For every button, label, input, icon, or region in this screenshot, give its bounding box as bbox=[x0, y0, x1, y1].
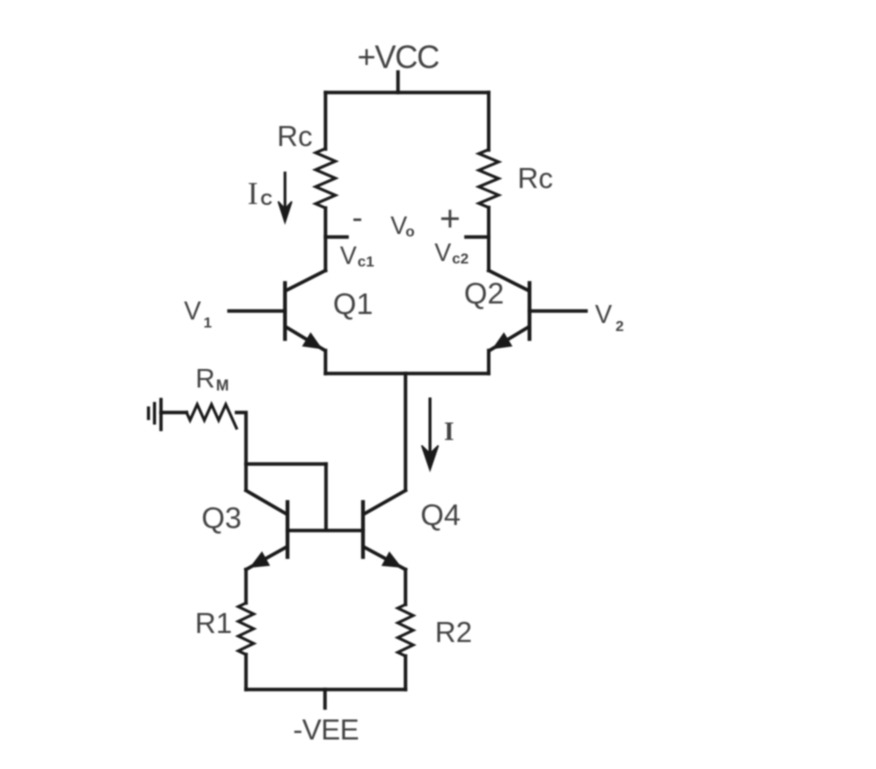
svg-text:-VEE: -VEE bbox=[293, 715, 359, 747]
current arrow I bbox=[429, 399, 432, 456]
svg-text:I: I bbox=[248, 175, 259, 211]
wire right collector branch bbox=[487, 93, 491, 151]
node Vc1 tick bbox=[326, 235, 348, 239]
svg-text:C: C bbox=[261, 191, 273, 209]
svg-text:R: R bbox=[196, 364, 216, 394]
svg-text:V: V bbox=[595, 301, 612, 329]
wire left collector branch bbox=[324, 93, 328, 150]
transistor Q3 bbox=[246, 491, 288, 570]
wire Q4 emitter drop bbox=[404, 570, 408, 605]
wire Q3 emitter drop bbox=[244, 570, 248, 604]
svg-text:V: V bbox=[184, 298, 201, 326]
resistor R2 bbox=[398, 605, 413, 657]
wire mirror tie drop to base bus bbox=[324, 464, 328, 529]
wire R1 to rail bbox=[244, 655, 248, 690]
svg-text:2: 2 bbox=[616, 318, 624, 335]
wire Q1 emitter drop bbox=[324, 351, 328, 374]
svg-text:I: I bbox=[444, 417, 454, 446]
current arrow IC bbox=[284, 173, 287, 208]
wire V1 base lead bbox=[229, 309, 285, 313]
svg-text:+VCC: +VCC bbox=[357, 39, 439, 75]
transistor Q1 bbox=[285, 271, 326, 351]
wire top rail bbox=[326, 91, 489, 95]
svg-text:V: V bbox=[435, 239, 452, 267]
svg-text:Q4: Q4 bbox=[421, 499, 461, 532]
transistor Q2 bbox=[489, 271, 530, 351]
wire V2 base lead bbox=[530, 309, 587, 313]
ground bbox=[149, 400, 162, 430]
wire RM to node bbox=[237, 413, 247, 491]
wire VEE stub bbox=[323, 690, 327, 709]
resistor RC left bbox=[316, 149, 336, 209]
svg-text:+: + bbox=[440, 198, 461, 239]
svg-text:R1: R1 bbox=[195, 608, 232, 640]
node Vc2 tick bbox=[466, 235, 489, 239]
svg-text:Rc: Rc bbox=[277, 121, 312, 153]
svg-text:M: M bbox=[216, 378, 229, 395]
svg-text:c2: c2 bbox=[452, 251, 469, 268]
svg-text:c1: c1 bbox=[358, 254, 375, 271]
wire emitter rail bbox=[326, 372, 489, 376]
wire left collector to Q1 bbox=[324, 208, 328, 271]
svg-text:R2: R2 bbox=[435, 617, 472, 649]
wire tail current drop bbox=[404, 374, 408, 491]
wire mirror tie horizontal bbox=[246, 462, 326, 466]
svg-text:Q2: Q2 bbox=[464, 278, 504, 311]
svg-text:o: o bbox=[406, 224, 415, 241]
svg-text:Q1: Q1 bbox=[333, 288, 373, 321]
resistor RM bbox=[187, 404, 237, 428]
wire VCC stub bbox=[396, 72, 400, 93]
resistor RC right bbox=[479, 150, 499, 208]
resistor R1 bbox=[238, 603, 253, 655]
svg-text:Rc: Rc bbox=[518, 163, 553, 195]
wire right collector to Q2 bbox=[487, 208, 491, 271]
svg-text:V: V bbox=[340, 242, 357, 270]
wire Q2 emitter drop bbox=[487, 351, 491, 374]
svg-text:Q3: Q3 bbox=[202, 502, 242, 535]
wire R2 to rail bbox=[404, 656, 408, 690]
svg-text:1: 1 bbox=[204, 315, 212, 332]
wire base bus Q3-Q4 bbox=[288, 529, 364, 533]
wire bottom rail bbox=[246, 688, 406, 692]
svg-text:-: - bbox=[352, 200, 363, 236]
transistor Q4 bbox=[363, 491, 406, 570]
wire ground to RM bbox=[161, 411, 187, 415]
